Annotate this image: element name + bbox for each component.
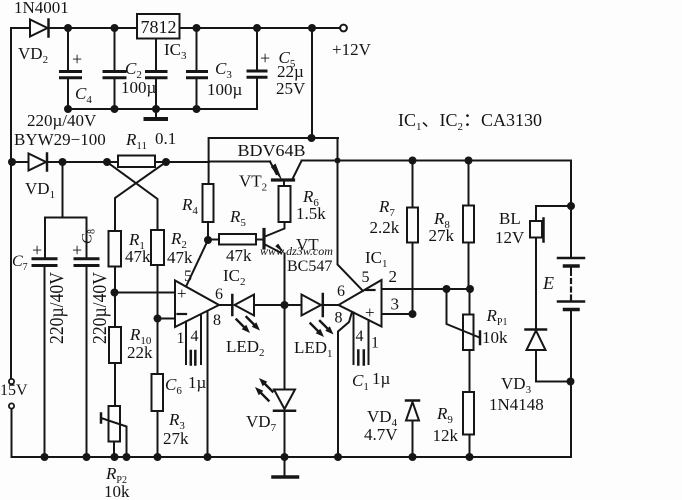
svg-text:+: +: [365, 303, 375, 322]
svg-text:47k: 47k: [125, 247, 151, 266]
wire filter bank bottom rail: [64, 105, 257, 113]
potentiometer RP2: [101, 406, 130, 500]
buzzer BL: [495, 202, 575, 330]
wire second rail (right): [302, 157, 572, 165]
svg-text:5: 5: [184, 268, 192, 285]
node: +12V output terminal: [332, 25, 372, 59]
wire second rail (left): [8, 158, 270, 166]
resistor R3: [152, 374, 190, 457]
svg-text:R11: R11: [125, 130, 147, 152]
svg-text:+: +: [32, 240, 42, 260]
svg-text:1: 1: [177, 330, 185, 347]
svg-text:1µ: 1µ: [372, 369, 391, 388]
svg-text:8: 8: [213, 312, 221, 329]
capacitor C4: [61, 28, 93, 109]
svg-text:BYW29−100: BYW29−100: [14, 130, 106, 149]
svg-text:100µ: 100µ: [121, 78, 157, 97]
svg-text:10k: 10k: [482, 328, 508, 347]
resistor R6: [265, 180, 326, 237]
svg-text:C6: C6: [165, 375, 182, 397]
svg-text:4: 4: [356, 328, 364, 345]
wire C7/C8 feed tee: [45, 162, 87, 258]
resistor R2: [151, 229, 193, 374]
svg-text:+: +: [260, 48, 270, 68]
svg-text:2.2k: 2.2k: [370, 218, 400, 237]
svg-text:7812: 7812: [141, 17, 177, 37]
svg-text:+12V: +12V: [332, 40, 372, 59]
resistor R5: [204, 207, 264, 265]
svg-text:12V: 12V: [495, 228, 525, 247]
svg-text:BL: BL: [499, 209, 521, 228]
diode VD3: [489, 330, 575, 415]
svg-text:27k: 27k: [429, 226, 455, 245]
svg-text:1µ: 1µ: [188, 373, 207, 392]
svg-text:IC1、IC2：CA3130: IC1、IC2：CA3130: [398, 110, 542, 133]
svg-text:3: 3: [391, 295, 400, 314]
svg-text:+: +: [72, 49, 82, 69]
transistor VT2 (BDV64B): [239, 161, 302, 194]
svg-text:C3: C3: [215, 59, 232, 81]
ground (below 7812): [146, 109, 167, 119]
svg-text:IC1: IC1: [365, 248, 388, 270]
capacitor (unlabeled, 7812 common pin): [147, 39, 167, 110]
svg-text:R5: R5: [229, 207, 246, 229]
node LED junction: [281, 301, 289, 309]
svg-text:47k: 47k: [167, 248, 193, 267]
svg-text:VD2: VD2: [18, 44, 48, 66]
svg-text:C4: C4: [75, 84, 92, 106]
LED VD7: [246, 305, 295, 457]
svg-text:R4: R4: [181, 195, 198, 217]
diode VD2: [14, 0, 69, 66]
svg-text:C1: C1: [352, 371, 369, 393]
svg-text:VT2: VT2: [239, 172, 267, 194]
op-amp IC2: [175, 240, 246, 457]
svg-text:220µ/40V: 220µ/40V: [27, 111, 97, 130]
svg-text:VD1: VD1: [25, 179, 55, 201]
node: 15V input terminals: [0, 379, 28, 457]
diode VD1: [25, 154, 55, 202]
transistor VT (BC547): [264, 230, 332, 306]
svg-text:C8: C8: [80, 229, 98, 244]
wire IC2 non-inverting input: [111, 289, 176, 297]
LED LED2: [219, 295, 285, 360]
capacitor C7: [12, 240, 68, 457]
potentiometer RP1: [447, 289, 509, 392]
svg-text:R7: R7: [378, 197, 395, 219]
svg-text:220µ/40V: 220µ/40V: [46, 272, 68, 344]
svg-text:5: 5: [362, 269, 370, 286]
ground (below VD7): [273, 457, 298, 477]
capacitor C6 (between IC2 pins 1 and 4): [165, 315, 207, 398]
capacitor C2: [104, 28, 157, 109]
svg-text:LED1: LED1: [294, 338, 333, 360]
svg-text:25V: 25V: [276, 79, 306, 98]
wire crossing pair below R11: [107, 162, 166, 231]
svg-text:VD3: VD3: [501, 374, 532, 396]
resistor R7: [370, 161, 419, 315]
svg-text:1N4148: 1N4148: [489, 395, 544, 414]
svg-text:RP1: RP1: [486, 306, 508, 328]
svg-text:10k: 10k: [104, 482, 130, 500]
svg-text:12k: 12k: [433, 426, 459, 445]
capacitor C5: [248, 28, 306, 109]
capacitor C1 (between IC1 pins 4 and 1): [352, 313, 391, 394]
svg-text:R9: R9: [436, 404, 453, 426]
svg-text:C7: C7: [12, 253, 28, 273]
battery E: [542, 258, 584, 457]
svg-text:100µ: 100µ: [207, 80, 243, 99]
svg-text:8: 8: [335, 310, 343, 327]
resistor R9: [433, 392, 475, 457]
svg-text:LED2: LED2: [226, 337, 265, 359]
op-amp IC1: [335, 138, 400, 457]
svg-text:1.5k: 1.5k: [296, 204, 326, 223]
svg-text:4: 4: [191, 328, 199, 345]
svg-text:1: 1: [371, 335, 379, 352]
svg-text:IC2: IC2: [223, 266, 246, 288]
LED LED1: [285, 294, 339, 360]
wire driver top line A: [209, 134, 338, 184]
svg-text:6: 6: [215, 286, 223, 303]
resistor R1: [109, 230, 152, 327]
svg-text:0.1: 0.1: [155, 129, 176, 148]
zener diode VD4: [364, 401, 419, 458]
capacitor C8: [72, 229, 111, 457]
svg-text:2: 2: [389, 267, 398, 286]
svg-text:27k: 27k: [163, 429, 189, 448]
node: rail junction dots: [64, 24, 316, 32]
wire IC1 pin2 line: [382, 285, 475, 293]
svg-text:15V: 15V: [0, 382, 28, 399]
svg-text:47k: 47k: [226, 246, 252, 265]
wire bottom rail: [12, 453, 572, 461]
wire top +12V rail: [11, 28, 340, 381]
svg-text:E: E: [542, 273, 554, 293]
svg-text:VD7: VD7: [246, 412, 277, 434]
capacitor C3: [188, 28, 243, 109]
wire IC1 pin3 line: [382, 310, 417, 318]
resistor R10: [109, 325, 153, 406]
resistor R4: [181, 184, 214, 240]
svg-text:www.dz3w.com: www.dz3w.com: [260, 244, 333, 258]
op-amp U: voltage regulator IC3 7812: [137, 14, 187, 62]
svg-text:1N4001: 1N4001: [14, 0, 69, 17]
svg-text:IC3: IC3: [164, 40, 187, 62]
wire IC2 inverting input: [154, 315, 176, 323]
svg-text:220µ/40V: 220µ/40V: [89, 272, 111, 344]
svg-text:6: 6: [337, 283, 345, 300]
svg-text:BC547: BC547: [287, 258, 332, 275]
resistor R8: [429, 161, 475, 290]
wire right edge drop: [570, 161, 572, 259]
svg-text:4.7V: 4.7V: [364, 425, 398, 444]
svg-text:22k: 22k: [127, 343, 153, 362]
resistor R11: [118, 129, 176, 167]
wire from +12V rail down to driver line: [311, 28, 313, 138]
svg-text:BDV64B: BDV64B: [238, 141, 306, 160]
